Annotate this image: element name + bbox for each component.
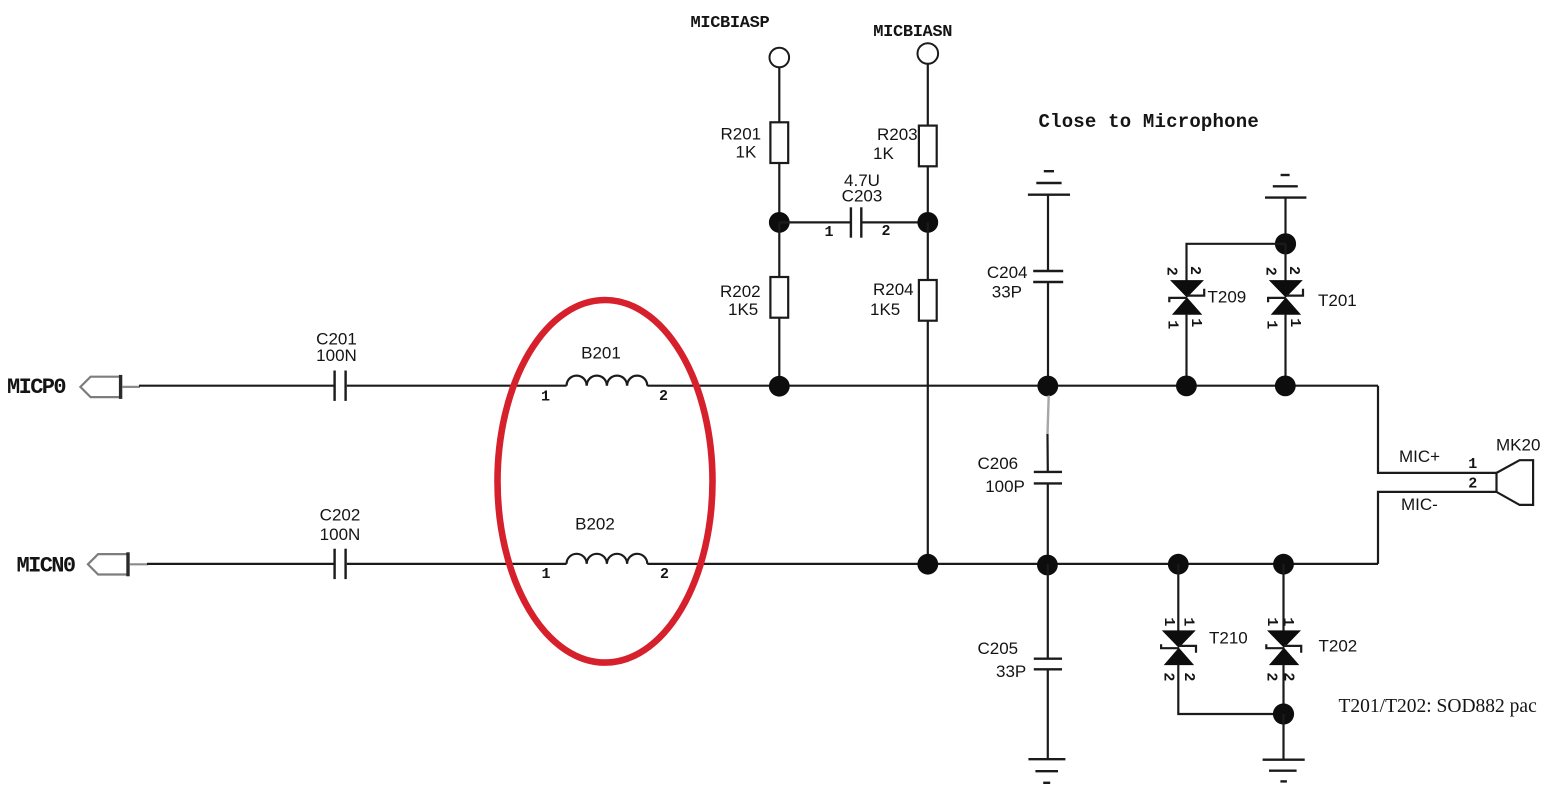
wire C202 to B202 — [347, 563, 567, 565]
junction node C206 C205 MICN0 — [1037, 555, 1058, 576]
wire C206 to MICN0 — [1047, 485, 1049, 564]
svg-text:1: 1 — [541, 566, 550, 583]
wire R203 to node — [927, 166, 929, 222]
svg-text:2: 2 — [881, 223, 890, 240]
svg-text:MICP0: MICP0 — [7, 375, 65, 400]
junction node T209 MICP0 — [1176, 376, 1197, 397]
capacitor C203 — [851, 207, 861, 237]
svg-text:C203: C203 — [842, 186, 883, 205]
wire to C206 — [1046, 434, 1049, 471]
svg-text:Close to Microphone: Close to Microphone — [1039, 111, 1259, 133]
svg-text:1: 1 — [824, 224, 833, 241]
svg-text:MICBIASP: MICBIASP — [691, 14, 770, 33]
wire ground to node — [1284, 198, 1286, 244]
svg-text:C206: C206 — [978, 454, 1019, 473]
wire MICN0 to C205 — [1047, 564, 1049, 658]
svg-text:2: 2 — [1163, 267, 1180, 276]
svg-text:C205: C205 — [978, 639, 1019, 658]
terminal circle MICBIASP — [770, 48, 790, 68]
wire gray artifact below node — [1048, 396, 1049, 435]
wire T201 to MICP0 — [1284, 314, 1286, 385]
inductor B201 — [567, 376, 648, 386]
wire node to T201 — [1284, 244, 1286, 281]
junction node T201 MICP0 — [1275, 376, 1296, 397]
wire ground to C204 — [1047, 195, 1049, 271]
svg-text:2: 2 — [1285, 266, 1302, 275]
wire MICP0 corner down to MIC+ — [1378, 386, 1497, 473]
TVS diode T210 — [1161, 631, 1196, 665]
wire node to ground — [1282, 714, 1284, 760]
capacitor C205 — [1034, 659, 1062, 670]
wire R202 to MICP0 — [778, 318, 780, 386]
svg-text:1K5: 1K5 — [728, 300, 758, 319]
svg-text:T210: T210 — [1209, 629, 1248, 648]
wire MICN0 to C202 — [147, 563, 334, 565]
svg-text:B202: B202 — [575, 515, 615, 534]
wire node to C203 pin1 — [779, 221, 850, 223]
junction node R203 R204 C203 — [917, 212, 938, 233]
svg-text:MIC-: MIC- — [1401, 495, 1438, 514]
svg-text:MICN0: MICN0 — [17, 554, 75, 579]
svg-text:T209: T209 — [1208, 287, 1247, 306]
wire B202 to T202 corner — [647, 563, 1378, 565]
svg-text:R204: R204 — [873, 280, 914, 299]
svg-text:R202: R202 — [720, 282, 761, 301]
capacitor C206 — [1034, 472, 1062, 484]
wire R204 to MICN0 crossing MICP0 — [927, 321, 929, 564]
resistor R204 — [919, 280, 937, 321]
svg-text:C202: C202 — [320, 506, 361, 525]
capacitor C202 — [335, 549, 346, 579]
wire node to R202 — [778, 222, 780, 277]
wire node to T209 column — [1187, 244, 1286, 281]
svg-text:2: 2 — [659, 388, 668, 405]
junction node C204 C206 MICP0 — [1037, 376, 1058, 397]
svg-text:1: 1 — [1286, 318, 1303, 327]
svg-text:C204: C204 — [987, 263, 1028, 282]
svg-text:R203: R203 — [877, 125, 918, 144]
svg-text:1: 1 — [1164, 320, 1181, 329]
wire T210 bottom link — [1178, 665, 1283, 714]
svg-text:2: 2 — [660, 566, 669, 583]
wire node to R204 — [927, 222, 929, 280]
connector MICP0 — [80, 375, 140, 399]
wire C204 to MICP0 — [1047, 283, 1049, 386]
junction node R204 MICN0 — [917, 554, 938, 575]
wire B201 to MK20 corner — [647, 385, 1378, 387]
svg-text:MK20: MK20 — [1496, 436, 1540, 455]
svg-text:1: 1 — [1187, 318, 1204, 327]
svg-text:1K: 1K — [736, 143, 757, 162]
resistor R201 — [770, 122, 788, 163]
svg-text:MIC+: MIC+ — [1399, 447, 1440, 466]
TVS diode T202 — [1266, 631, 1301, 665]
wire node to T210 — [1177, 564, 1179, 631]
connector MICN0 — [88, 552, 148, 576]
svg-text:R201: R201 — [721, 125, 762, 144]
ground bottom of C205 — [1028, 759, 1065, 783]
svg-text:1: 1 — [1160, 617, 1177, 626]
wire MICN0 corner up to MIC- — [1378, 492, 1497, 564]
junction node T202 MICN0 — [1273, 554, 1294, 575]
junction node T210 T202 bottoms — [1273, 703, 1294, 724]
resistor R203 — [919, 126, 937, 167]
junction node R202 MICP0 — [769, 376, 790, 397]
microphone connector MK20 — [1497, 460, 1534, 505]
wire node to T202 — [1282, 564, 1284, 631]
svg-text:2: 2 — [1261, 267, 1278, 276]
svg-text:33P: 33P — [992, 283, 1022, 302]
ground top of T201 — [1265, 175, 1306, 198]
wire MICP0 to C201 — [139, 385, 334, 387]
ground bottom of T202 — [1263, 760, 1305, 782]
svg-text:T201/T202: SOD882 pac: T201/T202: SOD882 pac — [1339, 696, 1538, 717]
svg-text:1: 1 — [1180, 617, 1197, 626]
svg-text:2: 2 — [1180, 672, 1197, 681]
terminal circle MICBIASN — [918, 43, 939, 64]
svg-text:1: 1 — [1468, 456, 1477, 473]
wire C201 to B201 — [347, 385, 567, 387]
svg-text:2: 2 — [1280, 672, 1297, 681]
ground top of C204 — [1028, 171, 1070, 195]
svg-text:1: 1 — [1262, 320, 1279, 329]
capacitor C204 — [1033, 271, 1063, 282]
svg-text:B201: B201 — [581, 344, 621, 363]
TVS diode T209 — [1169, 281, 1204, 315]
svg-text:T202: T202 — [1319, 637, 1358, 656]
wire MICBIASP to R201 — [778, 67, 780, 122]
junction node T209 T201 tops — [1275, 233, 1296, 254]
svg-text:1: 1 — [541, 389, 550, 406]
svg-text:100P: 100P — [985, 477, 1025, 496]
svg-text:T201: T201 — [1318, 291, 1357, 310]
svg-text:100N: 100N — [320, 525, 361, 544]
wire C205 to ground — [1047, 670, 1049, 759]
svg-text:2: 2 — [1468, 475, 1477, 492]
svg-text:2: 2 — [1263, 672, 1280, 681]
wire T202 to bottom node — [1282, 665, 1284, 714]
wire T209 to MICP0 — [1185, 314, 1187, 385]
junction node R201 R202 C203 — [769, 212, 790, 233]
svg-text:MICBIASN: MICBIASN — [873, 23, 952, 42]
junction node T210 MICN0 — [1168, 554, 1189, 575]
svg-text:33P: 33P — [996, 662, 1026, 681]
red emphasis ellipse around B201 B202 — [498, 300, 713, 663]
wire R201 to node — [778, 163, 780, 222]
svg-text:1: 1 — [1279, 617, 1296, 626]
wire C203 pin2 to node — [863, 221, 928, 223]
svg-text:1: 1 — [1263, 617, 1280, 626]
svg-text:2: 2 — [1186, 266, 1203, 275]
resistor R202 — [770, 277, 788, 318]
svg-text:1K: 1K — [873, 144, 894, 163]
wire MICBIASN to R203 — [927, 64, 929, 126]
svg-text:1K5: 1K5 — [870, 300, 900, 319]
svg-text:2: 2 — [1160, 672, 1177, 681]
capacitor C201 — [335, 371, 346, 401]
svg-text:100N: 100N — [316, 346, 357, 365]
inductor B202 — [567, 554, 648, 564]
TVS diode T201 — [1268, 281, 1303, 315]
